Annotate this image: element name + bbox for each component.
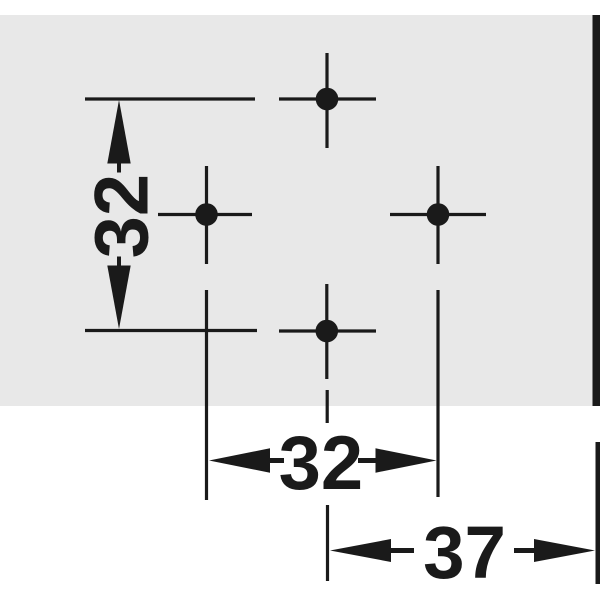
- hole H4 (bottom) crosshair: [279, 284, 376, 379]
- arrow down (vertical 32 dim): [107, 257, 130, 330]
- svg-text:37: 37: [423, 511, 506, 594]
- panel front edge (black band): [593, 15, 600, 406]
- centre line dash below hole H4: [326, 390, 329, 423]
- arrow left (37 dim): [330, 539, 414, 562]
- arrow right (37 dim): [514, 539, 595, 562]
- svg-text:32: 32: [79, 174, 164, 259]
- cabinet panel (grey): [0, 15, 593, 406]
- dimension line top (vertical 32 dim): [85, 97, 255, 100]
- hole H3 (right) crosshair: [390, 166, 486, 264]
- extension line at cabinet edge (37 dim): [596, 442, 600, 584]
- arrow right (horizontal 32 dim): [358, 448, 437, 472]
- extension line below hole H3: [436, 290, 439, 497]
- extension line below hole H2: [205, 290, 208, 500]
- hole H1 (top) crosshair: [279, 53, 376, 148]
- svg-text:32: 32: [279, 421, 364, 506]
- arrow left (horizontal 32 dim): [209, 448, 284, 472]
- arrow up (vertical 32 dim): [107, 100, 130, 173]
- dimension line bottom (vertical 32 dim): [85, 329, 257, 332]
- extension line below hole H4 (37 dim): [326, 505, 329, 581]
- hole H2 (left) crosshair: [158, 166, 252, 264]
